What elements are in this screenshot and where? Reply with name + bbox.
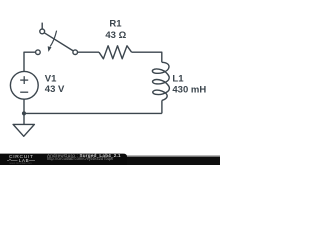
switch pivot terminal — [40, 29, 45, 34]
junction node dot — [22, 111, 26, 115]
switch actuation arrow — [50, 31, 56, 47]
wire inductor bottom to bottom rail — [161, 100, 163, 113]
svg-text:430 mH: 430 mH — [172, 84, 206, 95]
resistor R1 — [99, 46, 132, 59]
svg-text:43 V: 43 V — [45, 84, 65, 95]
svg-text:http://circuitlab.com/c/eyt4k4: http://circuitlab.com/c/eyt4k42d7bqw — [47, 156, 113, 161]
svg-text:R1: R1 — [109, 18, 122, 29]
ground — [13, 113, 34, 136]
bottom wire rail — [24, 112, 162, 114]
switch left terminal — [36, 50, 41, 55]
svg-text:www.circuitlab.com: www.circuitlab.com — [10, 161, 32, 165]
wire from V1 top to switch left terminal — [24, 52, 36, 71]
watermark bar — [0, 154, 220, 165]
switch blade — [44, 33, 73, 51]
inductor L1 coil — [152, 62, 169, 100]
svg-text:43 Ω: 43 Ω — [105, 30, 126, 41]
switch right terminal — [73, 50, 78, 55]
voltage source V1 — [10, 71, 38, 99]
wire resistor to inductor top — [132, 52, 162, 62]
watermark CircuitLab logo — [7, 154, 35, 165]
wire V1 bottom to junction — [23, 99, 25, 113]
svg-text:L1: L1 — [172, 74, 184, 85]
switch top stub wire — [41, 23, 43, 29]
wire switch to resistor — [78, 51, 100, 53]
switch SW (toggle, open) — [36, 23, 78, 55]
